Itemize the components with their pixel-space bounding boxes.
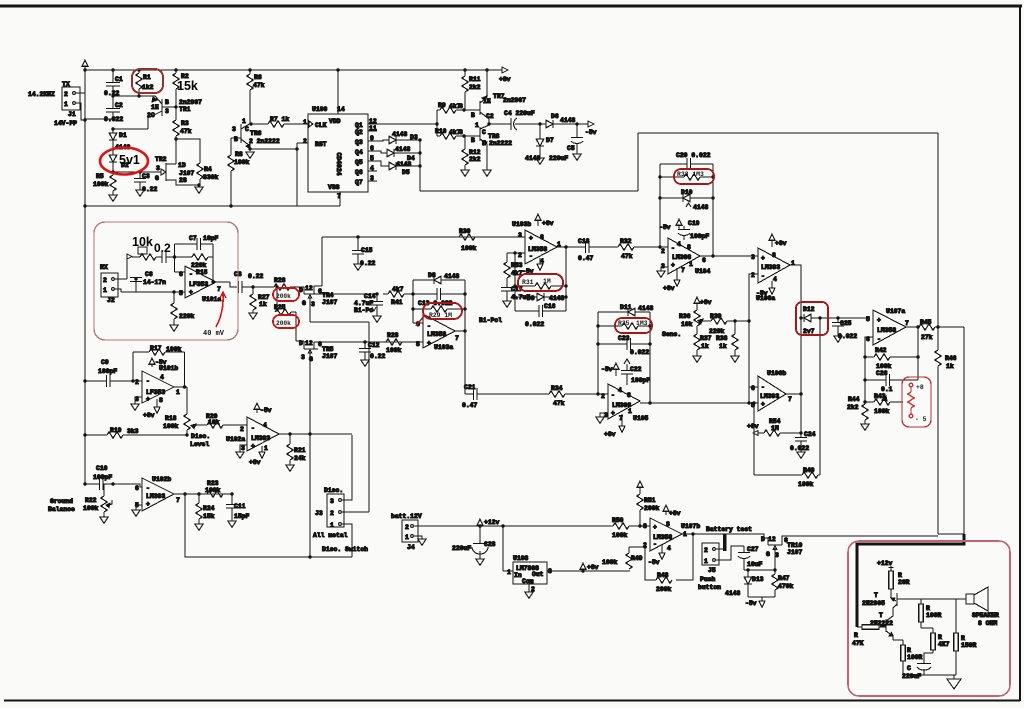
wire jog R45 node to x964 <box>938 326 964 328</box>
svg-text:10uF: 10uF <box>747 561 763 568</box>
svg-text:-: - <box>611 392 615 399</box>
svg-text:220uF: 220uF <box>902 673 921 680</box>
svg-text:200k: 200k <box>276 320 291 327</box>
svg-text:-: - <box>653 541 657 548</box>
svg-text:47k: 47k <box>621 253 633 260</box>
svg-text:1E: 1E <box>151 104 159 111</box>
svg-text:J3: J3 <box>315 510 323 517</box>
svg-text:D8: D8 <box>428 272 436 279</box>
svg-text:C2: C2 <box>115 102 123 109</box>
svg-text:D7: D7 <box>546 137 554 144</box>
svg-text:15pF: 15pF <box>234 513 250 520</box>
svg-text:1k: 1k <box>701 343 709 350</box>
svg-text:27k: 27k <box>921 334 933 341</box>
svg-text:2S: 2S <box>179 177 187 184</box>
svg-text:R24: R24 <box>203 505 215 512</box>
svg-text:100k: 100k <box>234 159 250 166</box>
wire R9R10 left vertical <box>436 110 438 136</box>
svg-text:200k: 200k <box>644 505 660 512</box>
svg-text:+8v: +8v <box>499 76 511 83</box>
svg-text:R22: R22 <box>85 497 97 504</box>
wire TR5 source row y342 <box>314 341 423 343</box>
resistor R 20R <box>889 571 910 598</box>
resistor R51 200k <box>637 481 660 528</box>
svg-text:C19: C19 <box>688 220 700 227</box>
svg-text:2k2: 2k2 <box>847 404 859 411</box>
svg-text:5: 5 <box>866 316 870 323</box>
svg-text:3: 3 <box>156 165 160 172</box>
wire U105 fb right <box>648 312 651 405</box>
resistor R46 1k <box>935 350 957 370</box>
zener D2 5v1 <box>109 155 129 172</box>
svg-text:D9: D9 <box>527 295 535 302</box>
svg-text:R37: R37 <box>700 335 712 342</box>
capacitor C16 0.022 <box>515 303 566 328</box>
capacitor C12 0.22 <box>359 342 386 366</box>
wire U106a out <box>790 265 801 433</box>
wire demod row y237 <box>322 236 525 238</box>
svg-text:-5v: -5v <box>745 600 757 607</box>
svg-text:1: 1 <box>242 118 246 125</box>
svg-text:C25: C25 <box>840 320 852 327</box>
IC U100 CD4024 <box>303 68 377 206</box>
svg-text:47k: 47k <box>253 82 265 89</box>
transistor TR1 2n2907 <box>113 96 202 129</box>
node +8v arrow <box>502 67 508 73</box>
svg-text:Disc.: Disc. <box>191 433 210 440</box>
pot R36 10k <box>662 297 712 338</box>
svg-text:3: 3 <box>301 354 305 361</box>
svg-text:R29 1M: R29 1M <box>429 312 452 319</box>
svg-text:C24: C24 <box>804 431 816 438</box>
capacitor C21 0.47 <box>462 384 549 409</box>
svg-text:D12: D12 <box>803 306 815 313</box>
svg-text:+: + <box>146 396 150 403</box>
wire U103a out <box>455 330 465 332</box>
svg-text:47k: 47k <box>553 400 565 407</box>
wire U102b loop down <box>185 494 352 557</box>
svg-text:4: 4 <box>263 422 267 429</box>
svg-text:-5v: -5v <box>659 224 671 231</box>
svg-text:4k7: 4k7 <box>392 286 404 293</box>
svg-text:7: 7 <box>788 396 792 403</box>
svg-text:0.1: 0.1 <box>881 386 893 393</box>
svg-text:4148: 4148 <box>392 131 408 138</box>
svg-text:0.022: 0.022 <box>838 333 857 340</box>
svg-text:47K: 47K <box>852 640 864 647</box>
svg-text:10k: 10k <box>681 321 693 328</box>
jfet TR5 J107 <box>296 312 338 557</box>
ground speaker <box>947 675 961 689</box>
svg-text:8: 8 <box>687 244 691 251</box>
svg-text:Battery test: Battery test <box>706 526 752 533</box>
svg-text:R39: R39 <box>710 313 722 320</box>
wire U106a pin2 <box>749 274 758 321</box>
page border bottom <box>4 699 1020 701</box>
resistor R 47K <box>852 625 886 647</box>
wire gate row y172 <box>113 171 161 173</box>
svg-text:VDD: VDD <box>329 118 341 125</box>
svg-text:+8v: +8v <box>747 423 759 430</box>
svg-text:J107: J107 <box>322 299 338 306</box>
connector J3 disc switch <box>313 487 368 553</box>
svg-text:2k2: 2k2 <box>469 84 481 91</box>
DRIVER <box>435 68 597 176</box>
svg-text:C16: C16 <box>544 303 556 310</box>
SAMPLERS <box>296 228 525 557</box>
capacitor C27 10uF <box>738 546 763 570</box>
svg-text:+: + <box>427 340 431 347</box>
trimmer 10k <box>127 247 162 260</box>
svg-text:+: + <box>653 524 657 531</box>
svg-text:200k: 200k <box>656 586 672 593</box>
svg-text:15k: 15k <box>177 79 198 93</box>
svg-text:1M3: 1M3 <box>636 320 648 327</box>
svg-text:C6: C6 <box>145 271 153 278</box>
svg-text:Disc.: Disc. <box>324 487 343 494</box>
svg-text:R43: R43 <box>874 393 886 400</box>
svg-text:40 mV: 40 mV <box>203 330 225 338</box>
svg-text:R25: R25 <box>274 304 286 311</box>
svg-text:5: 5 <box>416 341 420 348</box>
svg-text:2: 2 <box>661 248 665 255</box>
svg-text:-: - <box>761 384 765 391</box>
svg-text:100k: 100k <box>874 408 890 415</box>
resistor R48 200k <box>645 534 693 593</box>
wire riser x638 <box>637 133 639 191</box>
capacitor C9 100pF <box>85 359 139 387</box>
svg-text:R: R <box>926 605 930 612</box>
wire +12v row <box>414 525 613 527</box>
annotation RX preamp box <box>94 222 238 340</box>
svg-text:2: 2 <box>103 277 107 284</box>
svg-text:R26: R26 <box>274 277 286 284</box>
svg-text:C1: C1 <box>115 76 123 83</box>
svg-text:24k: 24k <box>294 455 306 462</box>
capacitor C22 100pF <box>621 359 650 385</box>
svg-text:R42: R42 <box>875 347 887 354</box>
svg-text:10k: 10k <box>132 235 153 249</box>
svg-text:1: 1 <box>330 522 334 529</box>
diode D11 4148 <box>598 304 654 316</box>
capacitor C4 220uF <box>504 110 540 130</box>
svg-text:C3: C3 <box>142 173 150 180</box>
speaker SPEAKER 8 OHM <box>966 587 999 627</box>
resistor R30 100k <box>459 228 477 252</box>
svg-text:200k: 200k <box>276 293 291 300</box>
resistor R25 <box>274 285 296 315</box>
svg-text:2: 2 <box>330 510 334 517</box>
svg-text:+: + <box>529 235 533 242</box>
capacitor C3 <box>134 172 158 196</box>
svg-text:1E: 1E <box>483 98 491 105</box>
RX PREAMP <box>100 235 304 331</box>
page border right <box>1019 7 1021 701</box>
svg-text:150R: 150R <box>961 642 977 649</box>
svg-text:+: + <box>611 410 615 417</box>
svg-text:3: 3 <box>459 129 463 136</box>
svg-text:2: 2 <box>405 524 409 531</box>
svg-text:R4: R4 <box>204 166 212 173</box>
svg-text:B: B <box>471 112 475 119</box>
resistor R17 100k <box>133 345 185 388</box>
svg-text:R: R <box>907 647 911 654</box>
diode D1 4148 <box>109 129 130 155</box>
capacitor C6 14-17n <box>130 271 166 292</box>
svg-text:220uF: 220uF <box>452 545 471 552</box>
svg-text:U103b: U103b <box>512 221 531 228</box>
svg-text:TR1: TR1 <box>179 106 191 113</box>
capacitor C25 0.022 <box>832 316 857 342</box>
svg-text:12: 12 <box>768 536 776 543</box>
svg-text:7: 7 <box>681 267 685 274</box>
svg-text:C28: C28 <box>484 541 496 548</box>
resistor R26 <box>253 277 304 290</box>
capacitor C13 0.022 <box>413 288 465 307</box>
svg-text:R: R <box>854 632 858 639</box>
connector J2 RX <box>100 264 127 304</box>
svg-text:VSS: VSS <box>328 184 340 191</box>
svg-text:7: 7 <box>905 320 909 327</box>
svg-text:2: 2 <box>303 138 307 145</box>
svg-text:4: 4 <box>773 276 777 283</box>
svg-text:R9: R9 <box>438 102 446 109</box>
svg-text:R27: R27 <box>258 294 270 301</box>
resistor R23 100k <box>205 480 223 497</box>
svg-text:R33 1M3: R33 1M3 <box>677 171 704 178</box>
node +12v arrow <box>477 519 500 526</box>
resistor R28 100k <box>386 332 402 354</box>
svg-text:C5: C5 <box>567 145 575 152</box>
diode D4 4148 <box>375 146 420 162</box>
svg-text:Q2: Q2 <box>355 129 363 136</box>
wire TR6 emitter row <box>250 148 297 150</box>
resistor R5 <box>93 172 117 201</box>
capacitor C24 0.022 <box>790 431 816 458</box>
RED ANNOTATIONS <box>94 69 1010 696</box>
svg-text:R45: R45 <box>920 319 932 326</box>
svg-text:U102a: U102a <box>226 436 245 443</box>
svg-text:220uF: 220uF <box>549 155 568 162</box>
wire R3 to R4 top <box>176 139 200 163</box>
svg-text:100k: 100k <box>386 347 402 354</box>
svg-text:12: 12 <box>305 285 313 292</box>
svg-text:0.47: 0.47 <box>578 255 594 262</box>
svg-text:D11: D11 <box>620 304 632 311</box>
svg-text:0.022: 0.022 <box>630 349 649 356</box>
transistor T 2N2905 <box>862 592 966 621</box>
annotation oval R29 1M <box>423 303 462 319</box>
svg-text:1k: 1k <box>946 363 954 370</box>
wire fb left vertical <box>174 244 176 272</box>
wire J1 pin1 <box>76 103 85 120</box>
svg-text:10k: 10k <box>208 419 220 426</box>
svg-text:C26: C26 <box>876 370 888 377</box>
svg-text:4.7uF: 4.7uF <box>354 300 373 307</box>
svg-text:7: 7 <box>176 497 180 504</box>
svg-text:R1: R1 <box>143 74 151 81</box>
svg-text:2: 2 <box>240 426 244 433</box>
resistor R24 15k <box>195 494 215 530</box>
svg-text:batt.12V: batt.12V <box>391 513 422 520</box>
annotation oval R35 1M3 <box>615 318 652 333</box>
svg-text:J107: J107 <box>179 170 195 177</box>
transistor TR7 2n2907 <box>459 70 526 124</box>
annotation oval 200k lower <box>273 315 299 328</box>
wire C10 to U102b <box>113 484 142 487</box>
svg-text:2N2222: 2N2222 <box>870 620 893 627</box>
jfet TR10 J107 <box>727 534 938 570</box>
capacitor C5 220uF <box>549 124 583 162</box>
wire U104 out row <box>700 255 758 257</box>
svg-text:1: 1 <box>176 389 180 396</box>
wire U102b out row <box>174 492 234 495</box>
svg-text:-5v: -5v <box>260 407 272 414</box>
svg-text:C20 0.022: C20 0.022 <box>676 152 711 159</box>
op-amp U101b LF353 <box>131 358 180 419</box>
diode D7 4148 <box>525 124 554 164</box>
svg-text:RX: RX <box>100 264 108 271</box>
op-amp U105 LM308 <box>596 363 649 438</box>
svg-text:4148: 4148 <box>525 155 541 162</box>
IC U108 LM7808 <box>503 526 557 598</box>
resistor R50 100k <box>612 517 650 539</box>
wire sens vertical x749 <box>748 321 750 403</box>
svg-text:220k: 220k <box>709 328 725 335</box>
svg-text:D10: D10 <box>681 189 693 196</box>
svg-text:SPEAKER: SPEAKER <box>972 612 999 619</box>
resistor R 150R <box>954 599 977 675</box>
svg-text:-: - <box>146 485 150 492</box>
svg-text:Q6: Q6 <box>355 169 363 176</box>
svg-text:Bi-Po: Bi-Po <box>354 307 373 314</box>
resistor R8 <box>228 138 250 206</box>
node +8v arrow <box>580 563 599 571</box>
resistor R38 1k <box>716 321 739 362</box>
svg-text:LF353: LF353 <box>189 281 208 288</box>
wire 14V-PP y119 <box>85 118 113 120</box>
wire mid rail <box>893 628 933 640</box>
capacitor C15 0.22 <box>352 235 376 270</box>
svg-text:+12v: +12v <box>484 519 500 526</box>
resistor R15 220k <box>175 244 214 282</box>
wire diode bus x420 <box>419 140 421 191</box>
svg-text:1M: 1M <box>771 425 779 432</box>
svg-text:+: + <box>671 262 675 269</box>
svg-text:-: - <box>671 245 675 252</box>
connector J4 batt 12V <box>391 513 426 551</box>
svg-text:RST: RST <box>315 141 327 148</box>
resistor R2 <box>173 70 189 107</box>
capacitor C26 0.1 <box>865 370 918 393</box>
svg-text:14.2KHZ: 14.2KHZ <box>28 91 55 98</box>
diode D6 4148 <box>540 113 588 128</box>
transistor TR8 2n2222 <box>459 122 512 176</box>
wire RST loop <box>297 143 308 206</box>
svg-text:C14: C14 <box>364 293 376 300</box>
svg-text:100pF: 100pF <box>631 377 650 384</box>
BATTERY TEST <box>698 526 938 607</box>
svg-text:220k: 220k <box>191 262 207 269</box>
resistor R34 47k <box>549 385 608 407</box>
resistor R54 1M <box>747 418 801 436</box>
transistor T 2N2222 <box>870 612 893 640</box>
svg-text:Disc. Switch: Disc. Switch <box>322 546 368 553</box>
svg-text:470k: 470k <box>778 583 794 590</box>
svg-text:4148: 4148 <box>560 117 576 124</box>
svg-text:E: E <box>482 140 486 147</box>
svg-text:C9: C9 <box>101 359 109 366</box>
svg-text:R30: R30 <box>459 228 471 235</box>
jfet TR2 J107 <box>155 139 199 185</box>
diode D3 4148 <box>375 131 420 144</box>
svg-text:R7 1k: R7 1k <box>270 116 289 123</box>
svg-text:0.22: 0.22 <box>360 260 376 267</box>
wire U102a out row <box>279 432 352 435</box>
svg-text:All metal: All metal <box>313 532 348 539</box>
wire osc node y96 <box>113 95 150 97</box>
svg-text:1: 1 <box>704 558 708 565</box>
svg-text:4148: 4148 <box>693 204 709 211</box>
svg-text:LM358: LM358 <box>877 327 896 334</box>
wire bottom rail <box>903 674 956 676</box>
svg-text:U100: U100 <box>312 106 328 113</box>
wire +8v out row <box>581 569 584 572</box>
svg-text:CD4024: CD4024 <box>335 152 342 175</box>
page border top <box>0 5 1022 8</box>
svg-text:U106b: U106b <box>767 370 786 377</box>
capacitor C7 10pF <box>175 235 219 250</box>
svg-text:+8v: +8v <box>663 285 675 292</box>
svg-text:4: 4 <box>618 387 622 394</box>
svg-text:1M: 1M <box>543 278 551 285</box>
pot R43 100k <box>865 393 903 415</box>
svg-text:100R: 100R <box>907 654 923 661</box>
svg-text:6: 6 <box>751 385 755 392</box>
resistor R35 1M3 <box>598 323 650 329</box>
annotation box pot +8 -5 <box>902 377 931 427</box>
resistor R53 4k7 <box>504 253 523 287</box>
svg-text:2k2: 2k2 <box>469 156 481 163</box>
wire U107a out <box>906 326 919 328</box>
svg-text:LM393: LM393 <box>251 435 270 442</box>
svg-text:100pF: 100pF <box>93 474 112 481</box>
svg-text:4148: 4148 <box>444 273 460 280</box>
svg-text:R: R <box>898 572 902 579</box>
svg-text:R51: R51 <box>644 497 656 504</box>
svg-text:R32: R32 <box>620 238 632 245</box>
wire thick speaker feed <box>857 534 964 627</box>
wire U103b fb right <box>564 245 567 311</box>
svg-text:C: C <box>907 665 911 672</box>
svg-text:2v7: 2v7 <box>803 328 815 335</box>
svg-text:-: - <box>251 425 255 432</box>
svg-text:-5v: -5v <box>155 359 167 366</box>
svg-text:U105: U105 <box>633 415 649 422</box>
svg-text:R18: R18 <box>165 415 177 422</box>
annotation oval R33 1M3 <box>674 169 714 184</box>
svg-text:LM393: LM393 <box>146 493 165 500</box>
U100 COUNTER <box>303 68 439 206</box>
diode D8 4148 <box>413 272 465 284</box>
svg-text:0.2: 0.2 <box>154 241 171 255</box>
svg-text:2n2907: 2n2907 <box>503 97 526 104</box>
svg-text:+8v: +8v <box>775 240 787 247</box>
op-amp U103a LM358 <box>416 314 459 351</box>
svg-text:Bi-Pol: Bi-Pol <box>479 317 502 324</box>
svg-text:4148: 4148 <box>549 295 565 302</box>
svg-text:+8v: +8v <box>700 299 712 306</box>
